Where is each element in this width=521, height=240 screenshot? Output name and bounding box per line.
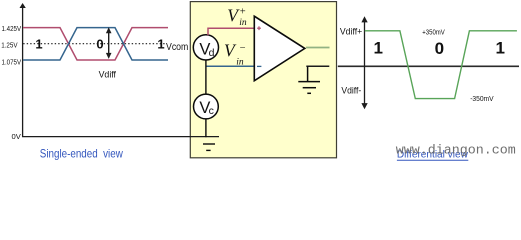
svg-text:in: in <box>239 18 247 28</box>
svg-text:0V: 0V <box>12 132 22 141</box>
Vdiff double arrow <box>106 27 112 59</box>
label Vin+ <box>227 5 247 27</box>
blue waveform (inverting single-ended) <box>23 28 168 60</box>
svg-text:1: 1 <box>495 39 504 58</box>
svg-text:+350mV: +350mV <box>422 28 445 37</box>
svg-text:d: d <box>209 47 215 59</box>
right axis (differential view) <box>364 21 366 106</box>
differential zero line (right panel) <box>338 65 519 67</box>
svg-text:c: c <box>209 105 214 117</box>
source Vc <box>194 94 219 119</box>
right axis up arrowhead <box>361 16 367 22</box>
caption underline <box>397 159 468 161</box>
ground at op-amp <box>298 66 320 93</box>
svg-text:Vdiff-: Vdiff- <box>341 85 361 96</box>
svg-text:1.425V: 1.425V <box>2 24 22 33</box>
wire Vd to Vc <box>205 60 207 95</box>
wire Vin- (blue) <box>206 65 254 67</box>
op-amp U1 <box>254 16 304 81</box>
svg-text:0: 0 <box>435 39 444 58</box>
label Vin- <box>224 41 246 68</box>
svg-text:1.25V: 1.25V <box>1 41 18 50</box>
source Vd <box>193 35 218 60</box>
svg-text:Vdiff+: Vdiff+ <box>340 26 363 37</box>
op-amp plus input mark <box>257 26 261 30</box>
svg-text:0: 0 <box>96 36 103 51</box>
zero-reference wire inside box <box>306 65 329 67</box>
op-amp output wire (green) <box>306 47 330 49</box>
svg-text:1: 1 <box>373 39 382 58</box>
svg-text:1: 1 <box>35 36 42 51</box>
svg-text:www.diangon.com: www.diangon.com <box>396 144 516 159</box>
ground under Vc <box>203 144 215 150</box>
op-amp minus input mark <box>257 65 261 67</box>
dotted Vcom reference line <box>23 43 166 45</box>
svg-text:Vdiff: Vdiff <box>99 70 117 80</box>
svg-text:+: + <box>240 7 246 18</box>
svg-text:Single-ended view: Single-ended view <box>40 146 123 160</box>
wire Vd top to Vin+ (red) <box>208 28 254 35</box>
svg-text:-350mV: -350mV <box>470 94 493 103</box>
svg-text:−: − <box>240 43 246 54</box>
svg-text:1.075V: 1.075V <box>2 58 22 67</box>
yellow box (circuit region) <box>190 2 336 158</box>
wire Vc to ground <box>205 119 207 138</box>
green differential waveform <box>365 31 517 99</box>
svg-text:in: in <box>236 57 244 67</box>
svg-text:Vcom: Vcom <box>166 42 188 53</box>
0V baseline wire to ground <box>22 136 219 138</box>
left voltage axis (single-ended view) <box>22 7 24 137</box>
left axis arrowhead <box>20 3 26 8</box>
svg-text:1: 1 <box>157 36 164 51</box>
right axis down arrowhead <box>361 103 367 109</box>
red waveform (non-inverting single-ended) <box>23 28 168 60</box>
